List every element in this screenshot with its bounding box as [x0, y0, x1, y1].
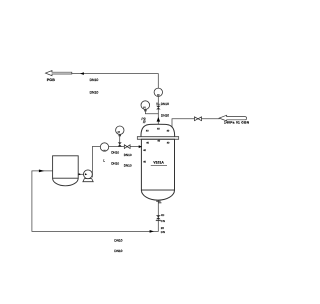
off-page connector air right	[219, 115, 246, 121]
flange ticks on vent riser	[156, 103, 160, 104]
svg-text:140Pa 01 GBN: 140Pa 01 GBN	[224, 121, 250, 125]
flow arrow bottom line	[150, 230, 154, 233]
wire nitrogen inlet top right	[172, 119, 194, 129]
flow arrow into vessel top	[157, 117, 161, 122]
flow arrow pump suction	[79, 173, 82, 175]
svg-text:DN10: DN10	[161, 102, 169, 106]
flow arrow into vessel left	[139, 145, 142, 148]
svg-text:CN: CN	[161, 219, 165, 223]
wire vent riser below arrestor	[157, 97, 159, 124]
svg-text:DN10: DN10	[124, 153, 132, 157]
svg-text:PGB: PGB	[47, 78, 55, 82]
wire feed pipe to vessel	[92, 146, 142, 148]
svg-text:JD: JD	[161, 213, 164, 217]
svg-text:DN10: DN10	[90, 78, 99, 82]
wire vent header	[72, 74, 159, 89]
wire tank outlet to pump	[78, 173, 83, 175]
valve drain	[156, 215, 161, 219]
tank	[53, 156, 79, 178]
off-page connector vent left	[46, 71, 72, 76]
svg-text:DN: DN	[161, 230, 165, 234]
svg-text:PI: PI	[143, 106, 146, 109]
svg-text:DN10: DN10	[124, 163, 132, 167]
flow arrow tank inlet	[39, 170, 45, 173]
flange ticks bottom nozzle	[156, 201, 161, 203]
vessel top head	[141, 124, 175, 136]
flow arrow vent	[80, 72, 84, 75]
svg-text:DN10: DN10	[90, 90, 99, 94]
wire gauge tap lower	[119, 136, 121, 146]
wire PI gauge tap upper	[145, 109, 158, 113]
nozzle labels on head	[143, 127, 170, 163]
svg-text:β): β)	[142, 119, 146, 123]
wire valve to air connector	[202, 118, 220, 120]
valve nitrogen line	[195, 117, 202, 121]
wire tank inlet	[32, 170, 53, 172]
wire drain line	[32, 171, 158, 232]
flame arrestor circle	[154, 88, 162, 96]
svg-text:PI: PI	[118, 131, 121, 134]
drain ticks	[156, 220, 161, 222]
pressure gauge PI upper	[141, 101, 150, 110]
valve feed pipe	[124, 145, 130, 149]
svg-text:DN10: DN10	[111, 151, 119, 155]
pressure gauge PI lower	[116, 126, 124, 134]
vessel bottom head	[141, 190, 174, 200]
svg-text:DN10: DN10	[161, 113, 169, 117]
rotameter circle	[100, 143, 108, 151]
svg-text:V101A: V101A	[153, 160, 164, 164]
svg-text:L: L	[103, 159, 105, 163]
wire pump discharge riser	[91, 147, 93, 177]
valve vent riser	[156, 106, 161, 110]
vessel shell	[141, 139, 174, 190]
vessel girth flange	[137, 137, 178, 140]
svg-text:DN10: DN10	[114, 249, 122, 253]
svg-text:DN10: DN10	[114, 239, 122, 243]
pump	[83, 179, 93, 182]
svg-text:DN10: DN10	[111, 162, 119, 166]
gauge leg valve	[118, 142, 122, 146]
